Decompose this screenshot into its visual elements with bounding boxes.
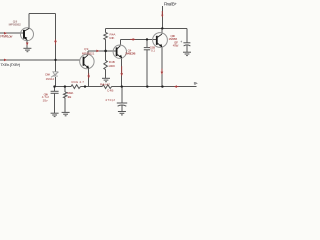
arrow right Q9 collector [96, 50, 99, 53]
wire Q8 base input [0, 32, 24, 34]
wire B+ bus left [54, 86, 71, 88]
svg-text:B+: B+ [194, 80, 199, 85]
wire R4B bottom [105, 70, 107, 79]
wire base node to R4B [105, 51, 107, 61]
wire B+ bus right [112, 86, 197, 88]
wire C8A bottom [54, 94, 56, 114]
arrow right middle collector [130, 38, 136, 41]
resistor R4A [104, 32, 108, 39]
svg-text:R4H 4.7: R4H 4.7 [100, 82, 110, 86]
resistor R4B [104, 60, 108, 69]
transistor Q30 output [153, 33, 168, 48]
wire B+ bus mid [81, 86, 103, 88]
wire C6B top [146, 39, 148, 47]
svg-text:0.1: 0.1 [151, 48, 155, 52]
arrow PWR Low right [4, 32, 7, 35]
svg-text:MPS6562: MPS6562 [9, 23, 21, 27]
wire R10A top [64, 87, 66, 92]
node dot R4G bus [84, 85, 86, 87]
resistor R10A [63, 92, 66, 98]
node dot base node [104, 50, 107, 53]
wire middle emitter down [121, 58, 123, 87]
node dot C6B bus [146, 85, 148, 87]
svg-text:TX En. (TX B+): TX En. (TX B+) [0, 62, 20, 67]
node dot TX rail [54, 59, 56, 61]
wire upper rail [106, 27, 187, 29]
svg-text:MPS6521: MPS6521 [82, 51, 95, 55]
node dot output emitter bus [161, 85, 163, 87]
node dot collector line C6B [146, 38, 148, 40]
wire diode branch upper [54, 60, 56, 72]
wire output emitter down [161, 47, 163, 87]
wire Q9 emitter down [88, 68, 90, 86]
wire Q9 collector to base node [88, 50, 117, 52]
svg-text:PWR Low: PWR Low [0, 35, 12, 39]
wire electrolytic top [186, 28, 188, 42]
wire C8A top [54, 87, 56, 91]
ground under Q8 [23, 48, 31, 51]
svg-text:35v: 35v [43, 98, 48, 102]
wire middle collector up [119, 39, 121, 45]
node dot middle emitter bus [121, 85, 123, 87]
capacitor C87 electrolytic [183, 43, 190, 46]
svg-text:R4G 4.7: R4G 4.7 [72, 80, 85, 84]
ground under R4B [102, 78, 110, 81]
svg-text:3.3K: 3.3K [109, 36, 115, 40]
arrow down Q9 emitter [87, 73, 90, 79]
wire output collector up [161, 28, 163, 34]
svg-text:100K: 100K [108, 64, 116, 68]
node dot Final B+ rail [161, 27, 163, 29]
wire down to TX rail [55, 13, 57, 60]
resistor R4G horizontal [71, 85, 81, 89]
arrow down Final B+ [161, 11, 163, 18]
wire Q8 emitter down [26, 41, 28, 49]
transistor Q4 middle [113, 45, 126, 58]
wire C4B lower [121, 87, 123, 103]
wire Q9 collector up [87, 51, 89, 55]
arrow left on bus [174, 85, 179, 88]
svg-text:1N914: 1N914 [46, 77, 55, 81]
transistor Q9 [80, 54, 94, 68]
svg-text:2N4401C945: 2N4401C945 [125, 52, 136, 56]
svg-text:D6A: D6A [45, 72, 50, 76]
arrow down Q8 emitter [26, 43, 29, 46]
wire top jumper [29, 12, 55, 14]
node dot bus left [53, 85, 55, 87]
wire R4A bottom to base node [105, 40, 107, 51]
ground under C8A [51, 113, 59, 116]
wire diode branch lower [54, 77, 56, 87]
ground under R10A [62, 112, 70, 115]
wire middle collector horizontal [120, 38, 157, 40]
svg-text:470uf: 470uf [173, 44, 179, 48]
capacitor C4B [117, 103, 127, 106]
wire Final B+ drop [161, 6, 163, 29]
wire TX En rail [0, 59, 80, 61]
svg-text:10k: 10k [67, 95, 71, 99]
diode D6 [51, 72, 59, 77]
ground under C4B [118, 112, 126, 115]
ground under C87 [183, 52, 191, 55]
svg-text:+: + [180, 40, 182, 44]
resistor R4H horizontal on bus [102, 85, 111, 89]
arrow down output emitter [161, 69, 164, 75]
svg-text:Final B+: Final B+ [164, 1, 177, 6]
wire Q8 collector up [28, 13, 30, 28]
wire C4B to ground [121, 106, 123, 112]
arrow TX rail right [4, 59, 7, 62]
transistor Q8 [21, 28, 34, 41]
wire R4A top [105, 28, 107, 32]
arrow down middle emitter [120, 66, 123, 76]
capacitor C8A [51, 91, 59, 93]
svg-text:470pf: 470pf [105, 98, 115, 102]
wire R10A bottom [64, 98, 66, 112]
wire C6B bottom long [146, 50, 148, 87]
capacitor C6B [144, 48, 150, 50]
svg-text:C4B: C4B [107, 88, 114, 92]
arrow up on x55 wire [54, 39, 57, 45]
node dot R10A bus [64, 85, 66, 87]
wire electrolytic bottom [186, 45, 188, 52]
